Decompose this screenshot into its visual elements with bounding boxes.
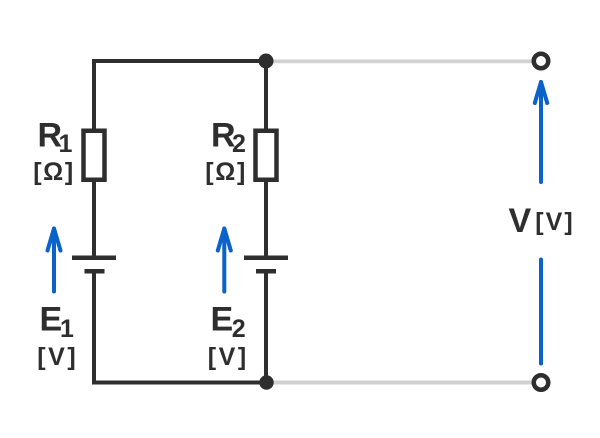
svg-text:1: 1	[60, 315, 74, 343]
svg-text:1: 1	[59, 130, 73, 158]
svg-text:2: 2	[232, 315, 246, 343]
svg-text:[Ω]: [Ω]	[33, 158, 73, 186]
svg-text:E: E	[40, 301, 63, 339]
svg-text:V: V	[509, 202, 532, 240]
svg-text:[Ω]: [Ω]	[205, 158, 245, 186]
svg-text:[V]: [V]	[208, 343, 247, 371]
svg-text:[V]: [V]	[535, 208, 573, 236]
svg-text:E: E	[211, 301, 234, 339]
svg-text:[V]: [V]	[37, 343, 76, 371]
svg-text:2: 2	[232, 130, 246, 158]
